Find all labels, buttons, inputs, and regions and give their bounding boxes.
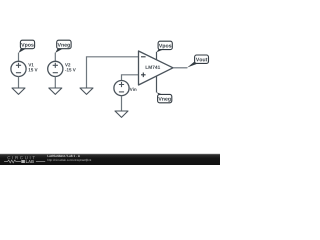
node flag Vpos (left) — [19, 40, 35, 53]
wire op-amp output — [173, 67, 187, 69]
ground under V2 — [49, 88, 62, 94]
op-amp V- pin stub — [156, 76, 158, 92]
wire Vin bottom — [121, 96, 123, 111]
op-amp V+ pin stub — [156, 52, 158, 60]
ground under Vin — [115, 111, 128, 117]
wire V2 bottom — [54, 77, 56, 89]
wire inverting input to ground — [87, 57, 139, 88]
node flag Vneg (op-amp V-) — [157, 92, 172, 103]
voltage source V1 — [11, 61, 38, 76]
node flag Vout — [187, 55, 208, 68]
ground at inverting input — [80, 88, 93, 94]
voltage source Vin — [114, 81, 137, 96]
wire Vin to non-inverting input — [122, 75, 139, 81]
watermark text — [48, 155, 92, 162]
voltage source V2 — [48, 61, 76, 76]
wire V2 top — [54, 53, 56, 62]
node flag Vneg (left) — [55, 40, 71, 53]
ground under V1 — [12, 88, 25, 94]
wire V1 bottom — [18, 77, 20, 89]
op-amp U1 LM741 — [139, 51, 174, 85]
watermark logo CIRCUIT LAB — [4, 156, 45, 163]
wire V1 top — [18, 53, 20, 62]
node flag Vpos (op-amp V+) — [157, 41, 173, 52]
